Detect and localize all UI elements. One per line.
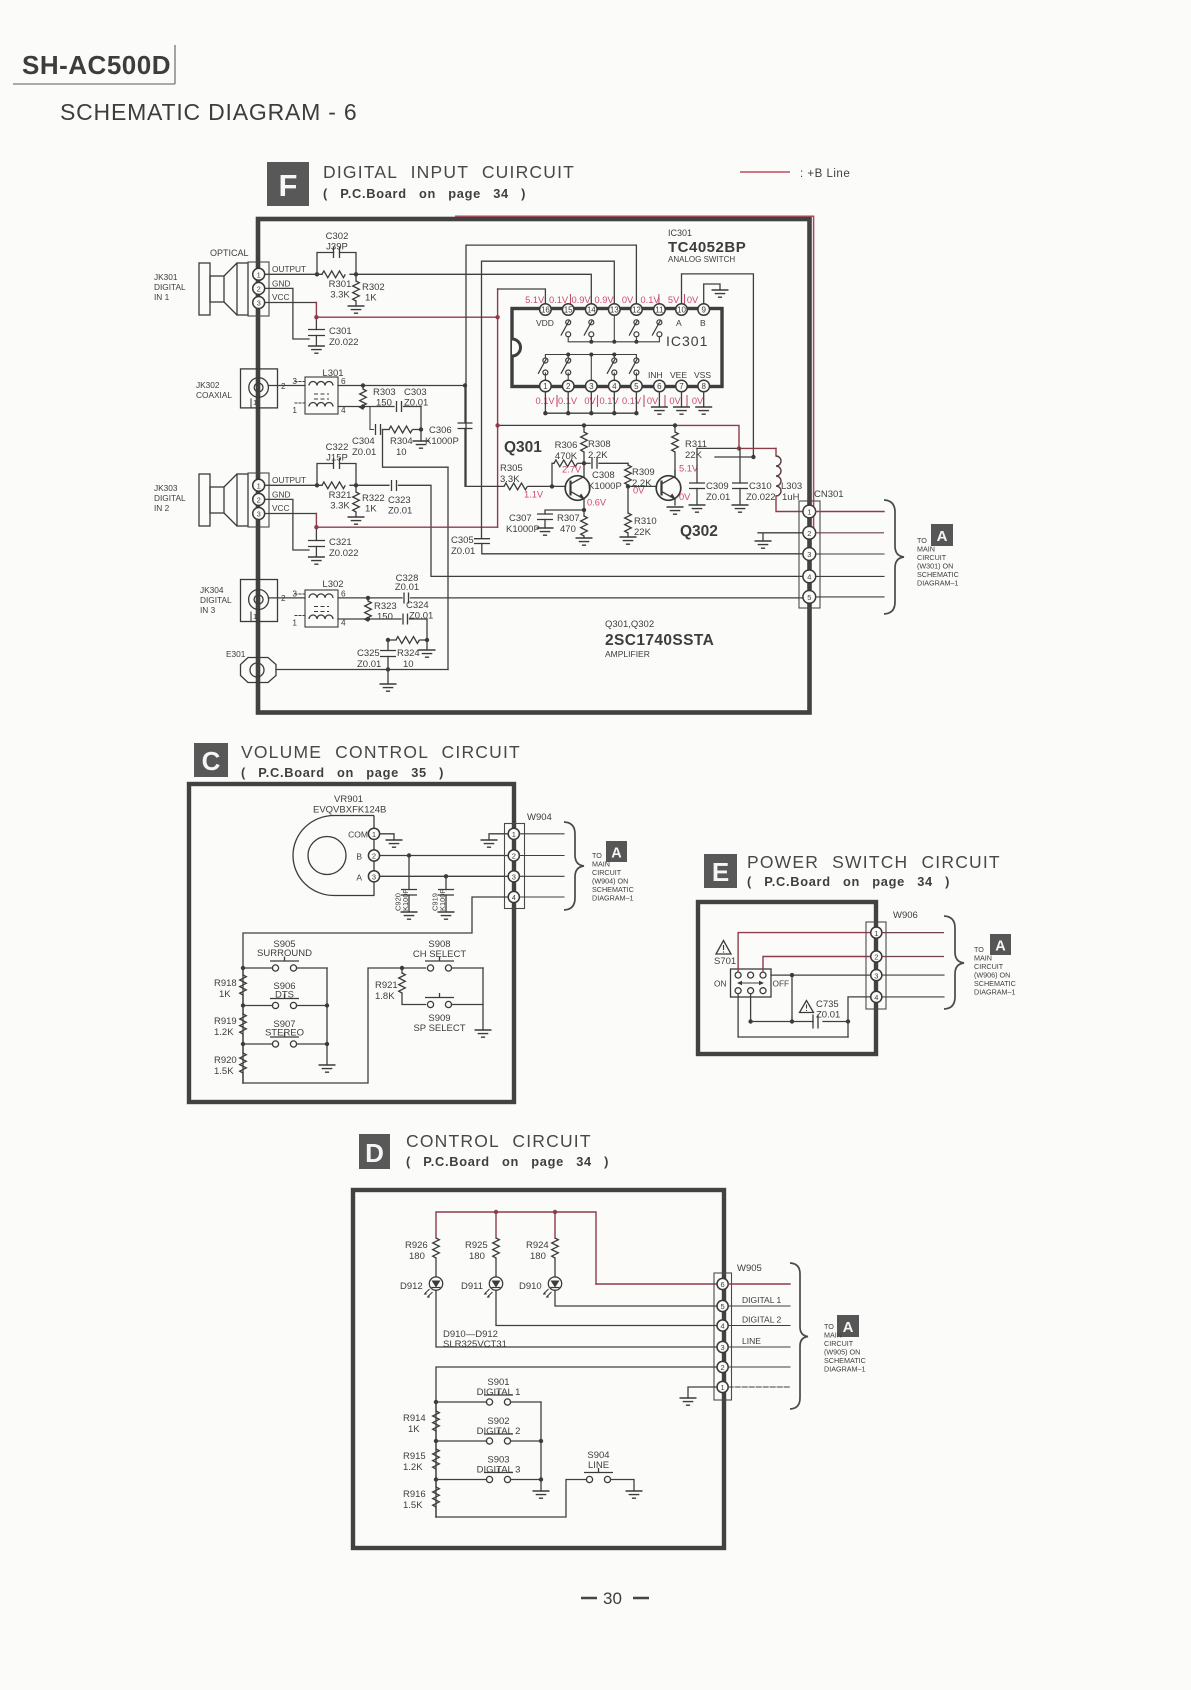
wire VR901 A to W904 pin3 <box>380 875 508 877</box>
svg-text:2SC1740SSTA: 2SC1740SSTA <box>605 632 714 649</box>
switch S907 STEREO <box>243 1019 327 1047</box>
wire GND JK303 <box>265 499 309 550</box>
svg-text:3: 3 <box>807 550 811 559</box>
svg-text:POWER SWITCH CIRCUIT: POWER SWITCH CIRCUIT <box>747 852 1001 872</box>
wire CN301 pin2 out <box>816 532 884 534</box>
svg-text:3.3K: 3.3K <box>500 474 520 485</box>
pin 5 W905 <box>717 1300 728 1311</box>
transistor Q301 <box>565 463 590 510</box>
svg-text:( P.C.Board on page 34 ): ( P.C.Board on page 34 ) <box>406 1154 609 1169</box>
wire W905 pin2 to switch ladder <box>436 1367 717 1517</box>
svg-text:Q301,Q302: Q301,Q302 <box>605 619 654 630</box>
pin 3 CN301 <box>803 548 816 561</box>
resistor R918 <box>214 968 246 1006</box>
svg-text:6: 6 <box>657 382 662 391</box>
svg-text:C304: C304 <box>352 436 375 447</box>
svg-text:2: 2 <box>721 1363 725 1372</box>
svg-text:COAXIAL: COAXIAL <box>196 390 232 400</box>
ground at IC pin9 <box>712 290 729 297</box>
capacitor C324 <box>403 600 433 625</box>
svg-text:VCC: VCC <box>272 503 290 513</box>
resistor R321 <box>322 482 345 489</box>
svg-text:2: 2 <box>512 852 516 861</box>
svg-text:0V: 0V <box>692 396 704 406</box>
pin 2 CN301 <box>803 526 816 539</box>
svg-text:0V: 0V <box>584 396 596 406</box>
title box lines <box>13 45 175 84</box>
svg-text:SCHEMATIC DIAGRAM - 6: SCHEMATIC DIAGRAM - 6 <box>60 99 358 125</box>
svg-text:OUTPUT: OUTPUT <box>272 264 306 274</box>
svg-text:3: 3 <box>512 873 516 882</box>
switch S909 SP SELECT <box>413 993 483 1034</box>
svg-text:150: 150 <box>377 612 393 623</box>
wire W904 pin4 out <box>519 896 564 898</box>
wire W906 pin1 out <box>882 932 944 934</box>
resistor R302 <box>353 274 385 306</box>
wire L302 pin4 line <box>338 618 401 620</box>
resistor R323 <box>365 596 397 623</box>
pin 4 W905 <box>717 1320 728 1331</box>
switch S908 CH SELECT <box>413 939 483 971</box>
svg-text:Z0.022: Z0.022 <box>329 548 359 559</box>
svg-text:K1000P: K1000P <box>588 481 622 492</box>
svg-text:Z0.01: Z0.01 <box>404 398 428 409</box>
svg-text:180: 180 <box>530 1251 546 1262</box>
svg-text:B: B <box>356 852 362 862</box>
svg-text:1K: 1K <box>408 1424 420 1435</box>
pin 6 W905 <box>717 1278 728 1289</box>
wire IC pin7 to ground <box>681 392 683 407</box>
pin 2 W906 <box>871 951 882 962</box>
svg-text:COM: COM <box>348 830 368 840</box>
wire L302 pin6 to CN301 pin5 <box>338 597 803 599</box>
wire W905 pin6 out (red) <box>728 1283 790 1285</box>
brace W906 <box>944 916 964 1009</box>
capacitor C310 <box>732 448 776 504</box>
wire CN301 pin4 out <box>816 575 884 577</box>
pin 1 VR901 <box>368 828 379 839</box>
svg-text:R301: R301 <box>329 279 352 290</box>
svg-text:OFF: OFF <box>773 979 790 989</box>
note A to main circuit W906 <box>974 934 1016 997</box>
svg-text:JK302: JK302 <box>196 380 220 390</box>
svg-text:13: 13 <box>610 306 619 315</box>
svg-text:R305: R305 <box>500 463 523 474</box>
svg-text:470K: 470K <box>555 451 578 462</box>
svg-text:DIGITAL: DIGITAL <box>200 595 232 605</box>
svg-text:0.6V: 0.6V <box>587 498 607 508</box>
svg-text:1: 1 <box>512 830 516 839</box>
svg-text:1.8K: 1.8K <box>375 991 395 1002</box>
IC internal bottom bus <box>545 355 636 359</box>
svg-text:C301: C301 <box>329 326 352 337</box>
svg-text:C307: C307 <box>509 513 532 524</box>
svg-text:IN 2: IN 2 <box>154 503 170 513</box>
wire OUTPUT JK301 to IC pin14 <box>265 274 592 303</box>
ground right of S904 <box>626 1491 643 1498</box>
wire W905 pin4 out DIGITAL 2 <box>728 1325 790 1327</box>
svg-text:D910: D910 <box>519 1281 542 1292</box>
ground under C325 <box>387 670 389 685</box>
svg-text:1.1V: 1.1V <box>524 490 544 500</box>
svg-text:5V: 5V <box>668 295 680 305</box>
svg-text:DIGITAL: DIGITAL <box>154 282 186 292</box>
svg-text:4: 4 <box>721 1322 725 1331</box>
wire +5V rail <box>498 424 675 426</box>
pin 1 JK301 <box>253 268 265 280</box>
svg-text:DIAGRAM–1: DIAGRAM–1 <box>592 894 634 903</box>
svg-text:C305: C305 <box>451 535 474 546</box>
wire +B to W905 pin6 (red) <box>596 1283 718 1285</box>
svg-text:( P.C.Board on page 34 ): ( P.C.Board on page 34 ) <box>323 186 526 201</box>
svg-text:GND: GND <box>272 490 290 500</box>
svg-text:VCC: VCC <box>272 292 290 302</box>
wire long vertical x448 <box>447 467 449 669</box>
wire VR901 B to W904 pin2 <box>380 855 508 857</box>
svg-text:14: 14 <box>587 306 596 315</box>
capacitor C307 <box>506 510 584 535</box>
svg-text:5.1V: 5.1V <box>525 295 545 305</box>
svg-text:K1000P: K1000P <box>506 524 540 535</box>
capacitor C325 <box>357 640 396 670</box>
svg-text:1: 1 <box>543 382 548 391</box>
resistor R921 <box>375 968 426 1005</box>
svg-text:R307: R307 <box>557 513 580 524</box>
IC pin name labels <box>536 318 711 380</box>
svg-text:1.5K: 1.5K <box>214 1066 234 1077</box>
svg-text:22K: 22K <box>634 527 652 538</box>
svg-text:180: 180 <box>469 1251 485 1262</box>
svg-text:1.2K: 1.2K <box>403 1462 423 1473</box>
svg-text:C309: C309 <box>706 481 729 492</box>
ground below C301 <box>308 346 325 353</box>
svg-text:R920: R920 <box>214 1055 237 1066</box>
pin 1 CN301 <box>803 505 816 518</box>
svg-text:150: 150 <box>376 398 392 409</box>
wire IC pins1-5 to bus <box>545 392 636 413</box>
svg-text:C: C <box>202 746 221 776</box>
svg-text:10: 10 <box>677 306 686 315</box>
svg-text:D911: D911 <box>461 1281 483 1292</box>
ground below ladder <box>319 1065 336 1072</box>
D block label box <box>359 1134 390 1169</box>
pin 4 CN301 <box>803 570 816 583</box>
legend +B line <box>740 168 850 180</box>
capacitor C321 <box>308 527 359 559</box>
svg-text:: +B Line: : +B Line <box>800 168 850 180</box>
IC internal switch pin2 <box>561 358 571 375</box>
svg-text:JK303: JK303 <box>154 483 178 493</box>
svg-text:R323: R323 <box>374 601 397 612</box>
svg-text:K1000P: K1000P <box>425 436 459 447</box>
svg-text:R919: R919 <box>214 1016 237 1027</box>
capacitor C302 <box>317 231 356 274</box>
resistor R919 <box>214 1006 246 1045</box>
wire W904 pin4 to switch ladder <box>243 897 508 968</box>
svg-text:Z0.01: Z0.01 <box>388 506 412 517</box>
svg-text:1: 1 <box>257 482 261 491</box>
ground below R307 <box>576 538 593 545</box>
svg-text:470: 470 <box>560 524 576 535</box>
ground under R324 right node <box>426 640 428 650</box>
connector JK303 <box>154 473 269 527</box>
svg-text:R321: R321 <box>329 490 352 501</box>
ground under C303 leg <box>413 441 430 448</box>
wire W905 pin1 to ground <box>688 1387 717 1398</box>
connector CN301 <box>799 489 844 608</box>
svg-text:K100P: K100P <box>401 888 410 911</box>
wire +B rail JK303 (red) <box>316 514 497 528</box>
node junction C302 left <box>315 272 319 276</box>
svg-text:9: 9 <box>701 306 706 315</box>
svg-text:R324: R324 <box>397 648 420 659</box>
bottom voltage labels (red) <box>535 396 704 406</box>
connector W906 <box>866 910 918 1009</box>
svg-text:2: 2 <box>566 382 571 391</box>
svg-text:VEE: VEE <box>670 370 687 380</box>
pin 5 CN301 <box>803 591 816 604</box>
pin 3 JK301 <box>253 297 265 309</box>
svg-text:AMPLIFIER: AMPLIFIER <box>605 649 650 659</box>
svg-text:R914: R914 <box>403 1413 426 1424</box>
svg-text:VR901: VR901 <box>334 794 363 805</box>
pin 1 JK303 <box>253 479 265 491</box>
svg-text:OUTPUT: OUTPUT <box>272 475 306 485</box>
wire +B bus (red) <box>436 1212 596 1284</box>
svg-text:1.2K: 1.2K <box>214 1027 234 1038</box>
svg-text:DIGITAL: DIGITAL <box>154 493 186 503</box>
E block border <box>698 902 876 1054</box>
connector JK304 <box>200 580 286 622</box>
svg-text:SH-AC500D: SH-AC500D <box>22 50 171 80</box>
svg-text:IN 3: IN 3 <box>200 605 216 615</box>
switch S701 body <box>714 969 789 997</box>
ground hook near W904 pin1 <box>489 834 508 840</box>
ground below Q302 emitter <box>667 507 684 514</box>
svg-text:D: D <box>365 1138 384 1168</box>
resistor R916 <box>403 1480 439 1518</box>
wire D911 to W905 pin4 <box>496 1290 718 1325</box>
svg-text:3: 3 <box>874 971 878 980</box>
wire JK302 to L301 <box>268 385 305 387</box>
svg-text:R915: R915 <box>403 1451 426 1462</box>
svg-text:A: A <box>937 528 948 545</box>
svg-text:1K: 1K <box>365 293 377 304</box>
node junction Q302 base <box>626 484 630 488</box>
label Q301,Q302 type <box>605 619 714 659</box>
top voltage ticks (red) <box>571 294 685 306</box>
svg-text:0V: 0V <box>622 295 634 305</box>
wire IC pin9 to ground <box>704 284 720 304</box>
brace CN301 <box>884 500 904 614</box>
svg-text:EVQVBXFK124B: EVQVBXFK124B <box>313 805 386 816</box>
svg-text:DIGITAL 1: DIGITAL 1 <box>742 1295 781 1305</box>
svg-text:C321: C321 <box>329 537 352 548</box>
wire D912 to W905 pin3 <box>436 1290 718 1347</box>
wire W905 pin5 out DIGITAL 1 <box>728 1305 790 1307</box>
warning triangle S701 <box>714 941 736 968</box>
+B red line along top and right border <box>455 216 814 533</box>
svg-text:2.7V: 2.7V <box>562 465 582 475</box>
svg-text:IC301: IC301 <box>666 333 708 349</box>
svg-text:OPTICAL: OPTICAL <box>210 248 249 258</box>
svg-text:DIGITAL 2: DIGITAL 2 <box>742 1315 781 1325</box>
resistor R924 <box>526 1238 558 1277</box>
resistor R926 <box>405 1238 439 1277</box>
resistor R301 <box>322 271 345 278</box>
svg-text:E: E <box>712 857 729 887</box>
node junction C302 right <box>354 272 358 276</box>
node junction at x465 <box>463 383 467 387</box>
svg-text:S701: S701 <box>714 956 736 967</box>
svg-text:VSS: VSS <box>694 370 711 380</box>
pin 2 JK303 <box>253 493 265 505</box>
svg-text:Z0.01: Z0.01 <box>816 1010 840 1021</box>
wire h1 to IC pin12 <box>466 245 636 486</box>
svg-text:JK301: JK301 <box>154 272 178 282</box>
svg-text:DIAGRAM–1: DIAGRAM–1 <box>824 1365 866 1374</box>
svg-text:2: 2 <box>257 285 261 294</box>
pin 3 VR901 <box>368 871 379 882</box>
wire W905 pin2 out <box>728 1366 790 1368</box>
pin 3 W906 <box>871 970 882 981</box>
svg-text:15: 15 <box>564 306 573 315</box>
svg-text:0.1V: 0.1V <box>549 295 569 305</box>
svg-text:1uH: 1uH <box>782 492 800 503</box>
wire C324 down to R324 <box>426 619 428 640</box>
wire ladder bottom <box>243 968 426 1083</box>
D block border <box>353 1190 724 1548</box>
capacitor C919 <box>431 876 455 911</box>
switch S904 LINE <box>584 1450 634 1491</box>
svg-text:DIGITAL INPUT CUIRCUIT: DIGITAL INPUT CUIRCUIT <box>323 162 575 182</box>
note A to main circuit W905 <box>824 1315 866 1374</box>
svg-text:1K: 1K <box>219 989 231 1000</box>
wire VCC JK303 <box>265 513 317 515</box>
pin 1 W906 <box>871 927 882 938</box>
IC internal switch pin15 <box>561 320 571 337</box>
bottom voltage ticks (red) <box>557 395 687 407</box>
svg-text:C324: C324 <box>406 600 429 611</box>
svg-text:W905: W905 <box>737 1263 762 1274</box>
resistor R304 <box>383 426 424 458</box>
svg-text:IC301: IC301 <box>668 228 692 238</box>
wire W904 pin2 out <box>519 855 564 857</box>
node junction C325 bottom <box>386 667 390 671</box>
svg-text:A: A <box>611 846 622 862</box>
wire +5V to C309 C310 <box>697 447 739 449</box>
svg-text:4: 4 <box>874 993 878 1002</box>
IC301 top pins 16..9 <box>540 304 710 316</box>
node junction Q301 collector <box>582 461 586 465</box>
wire JK304 to L302 <box>268 597 305 599</box>
wire C305 to CN301 pin3 <box>482 544 803 554</box>
svg-text:16: 16 <box>541 306 550 315</box>
svg-text:0V: 0V <box>687 295 699 305</box>
resistor R308 <box>581 425 611 463</box>
wire S701 bottom contacts <box>738 994 751 1037</box>
svg-text:R322: R322 <box>362 493 385 504</box>
ground below C307 <box>537 528 554 535</box>
svg-text:0.1V: 0.1V <box>640 295 660 305</box>
switch S901 DIGITAL 1 <box>436 1377 541 1405</box>
capacitor C323 <box>388 480 412 517</box>
svg-text:F: F <box>279 168 298 203</box>
svg-text:R306: R306 <box>555 440 578 451</box>
svg-text:INH: INH <box>648 370 663 380</box>
svg-text:J15P: J15P <box>326 453 348 464</box>
wire riser pin3 to C735 <box>791 975 793 1021</box>
wire CN301 pin5 out <box>816 596 884 598</box>
node junction Q301 base / R306 <box>550 484 554 488</box>
svg-text:0.1V: 0.1V <box>622 396 642 406</box>
wire CN301 pin3 out <box>816 553 884 555</box>
resistor R914 <box>403 1402 439 1441</box>
wire bottom return <box>738 1036 848 1038</box>
ground below C321 <box>308 557 325 564</box>
node junction C322 right <box>354 483 358 487</box>
pin 1 W905 <box>717 1381 728 1392</box>
page number 30 <box>581 1589 649 1608</box>
wire E301 to x448 vertical <box>276 669 448 671</box>
pin 4 W906 <box>871 991 882 1002</box>
svg-text:VDD: VDD <box>536 318 554 328</box>
transformer L301 <box>292 368 346 415</box>
svg-text:A: A <box>356 872 362 882</box>
svg-text:R925: R925 <box>465 1240 488 1251</box>
svg-text:R916: R916 <box>403 1489 426 1500</box>
wire W904 pin1 out <box>519 833 564 835</box>
svg-text:1: 1 <box>292 405 297 415</box>
potentiometer VR901 <box>293 794 386 896</box>
IC internal switch pin1 <box>538 358 548 375</box>
wire CN301 pin2 ground stub <box>758 533 803 541</box>
svg-text:12: 12 <box>632 306 641 315</box>
IC301 body <box>512 309 722 387</box>
capacitor C304 <box>352 407 381 459</box>
svg-text:GND: GND <box>272 279 290 289</box>
svg-text:C310: C310 <box>749 481 772 492</box>
svg-text:CONTROL CIRCUIT: CONTROL CIRCUIT <box>406 1131 592 1151</box>
capacitor C328 <box>395 573 419 604</box>
svg-text:1: 1 <box>372 830 376 839</box>
pin 3 W904 <box>508 871 519 882</box>
ground below C919 <box>438 912 455 919</box>
connector JK302 <box>196 369 286 408</box>
capacitor C301 <box>308 317 359 348</box>
svg-text:IN 1: IN 1 <box>154 292 170 302</box>
switch S903 DIGITAL 3 <box>436 1455 541 1483</box>
inductor L303 <box>776 448 803 511</box>
wire VCC JK301 to +B <box>265 302 317 304</box>
svg-text:180: 180 <box>409 1251 425 1262</box>
svg-text:A: A <box>995 939 1006 955</box>
svg-text:8: 8 <box>701 382 706 391</box>
wire Q302 base <box>628 485 657 487</box>
diode D912 LED <box>400 1277 443 1298</box>
svg-text:0.1V: 0.1V <box>599 396 619 406</box>
resistor R309 <box>625 463 655 489</box>
transformer L302 <box>292 579 346 628</box>
capacitor C309 <box>689 448 730 504</box>
svg-text:J39P: J39P <box>326 242 348 253</box>
IC internal switch pin11 <box>652 320 662 337</box>
svg-text:6: 6 <box>721 1280 725 1289</box>
node junction Q301 emitter <box>582 508 586 512</box>
svg-text:W906: W906 <box>893 910 918 921</box>
pin 2 W904 <box>508 850 519 861</box>
note A to main circuit W301 <box>917 524 959 588</box>
